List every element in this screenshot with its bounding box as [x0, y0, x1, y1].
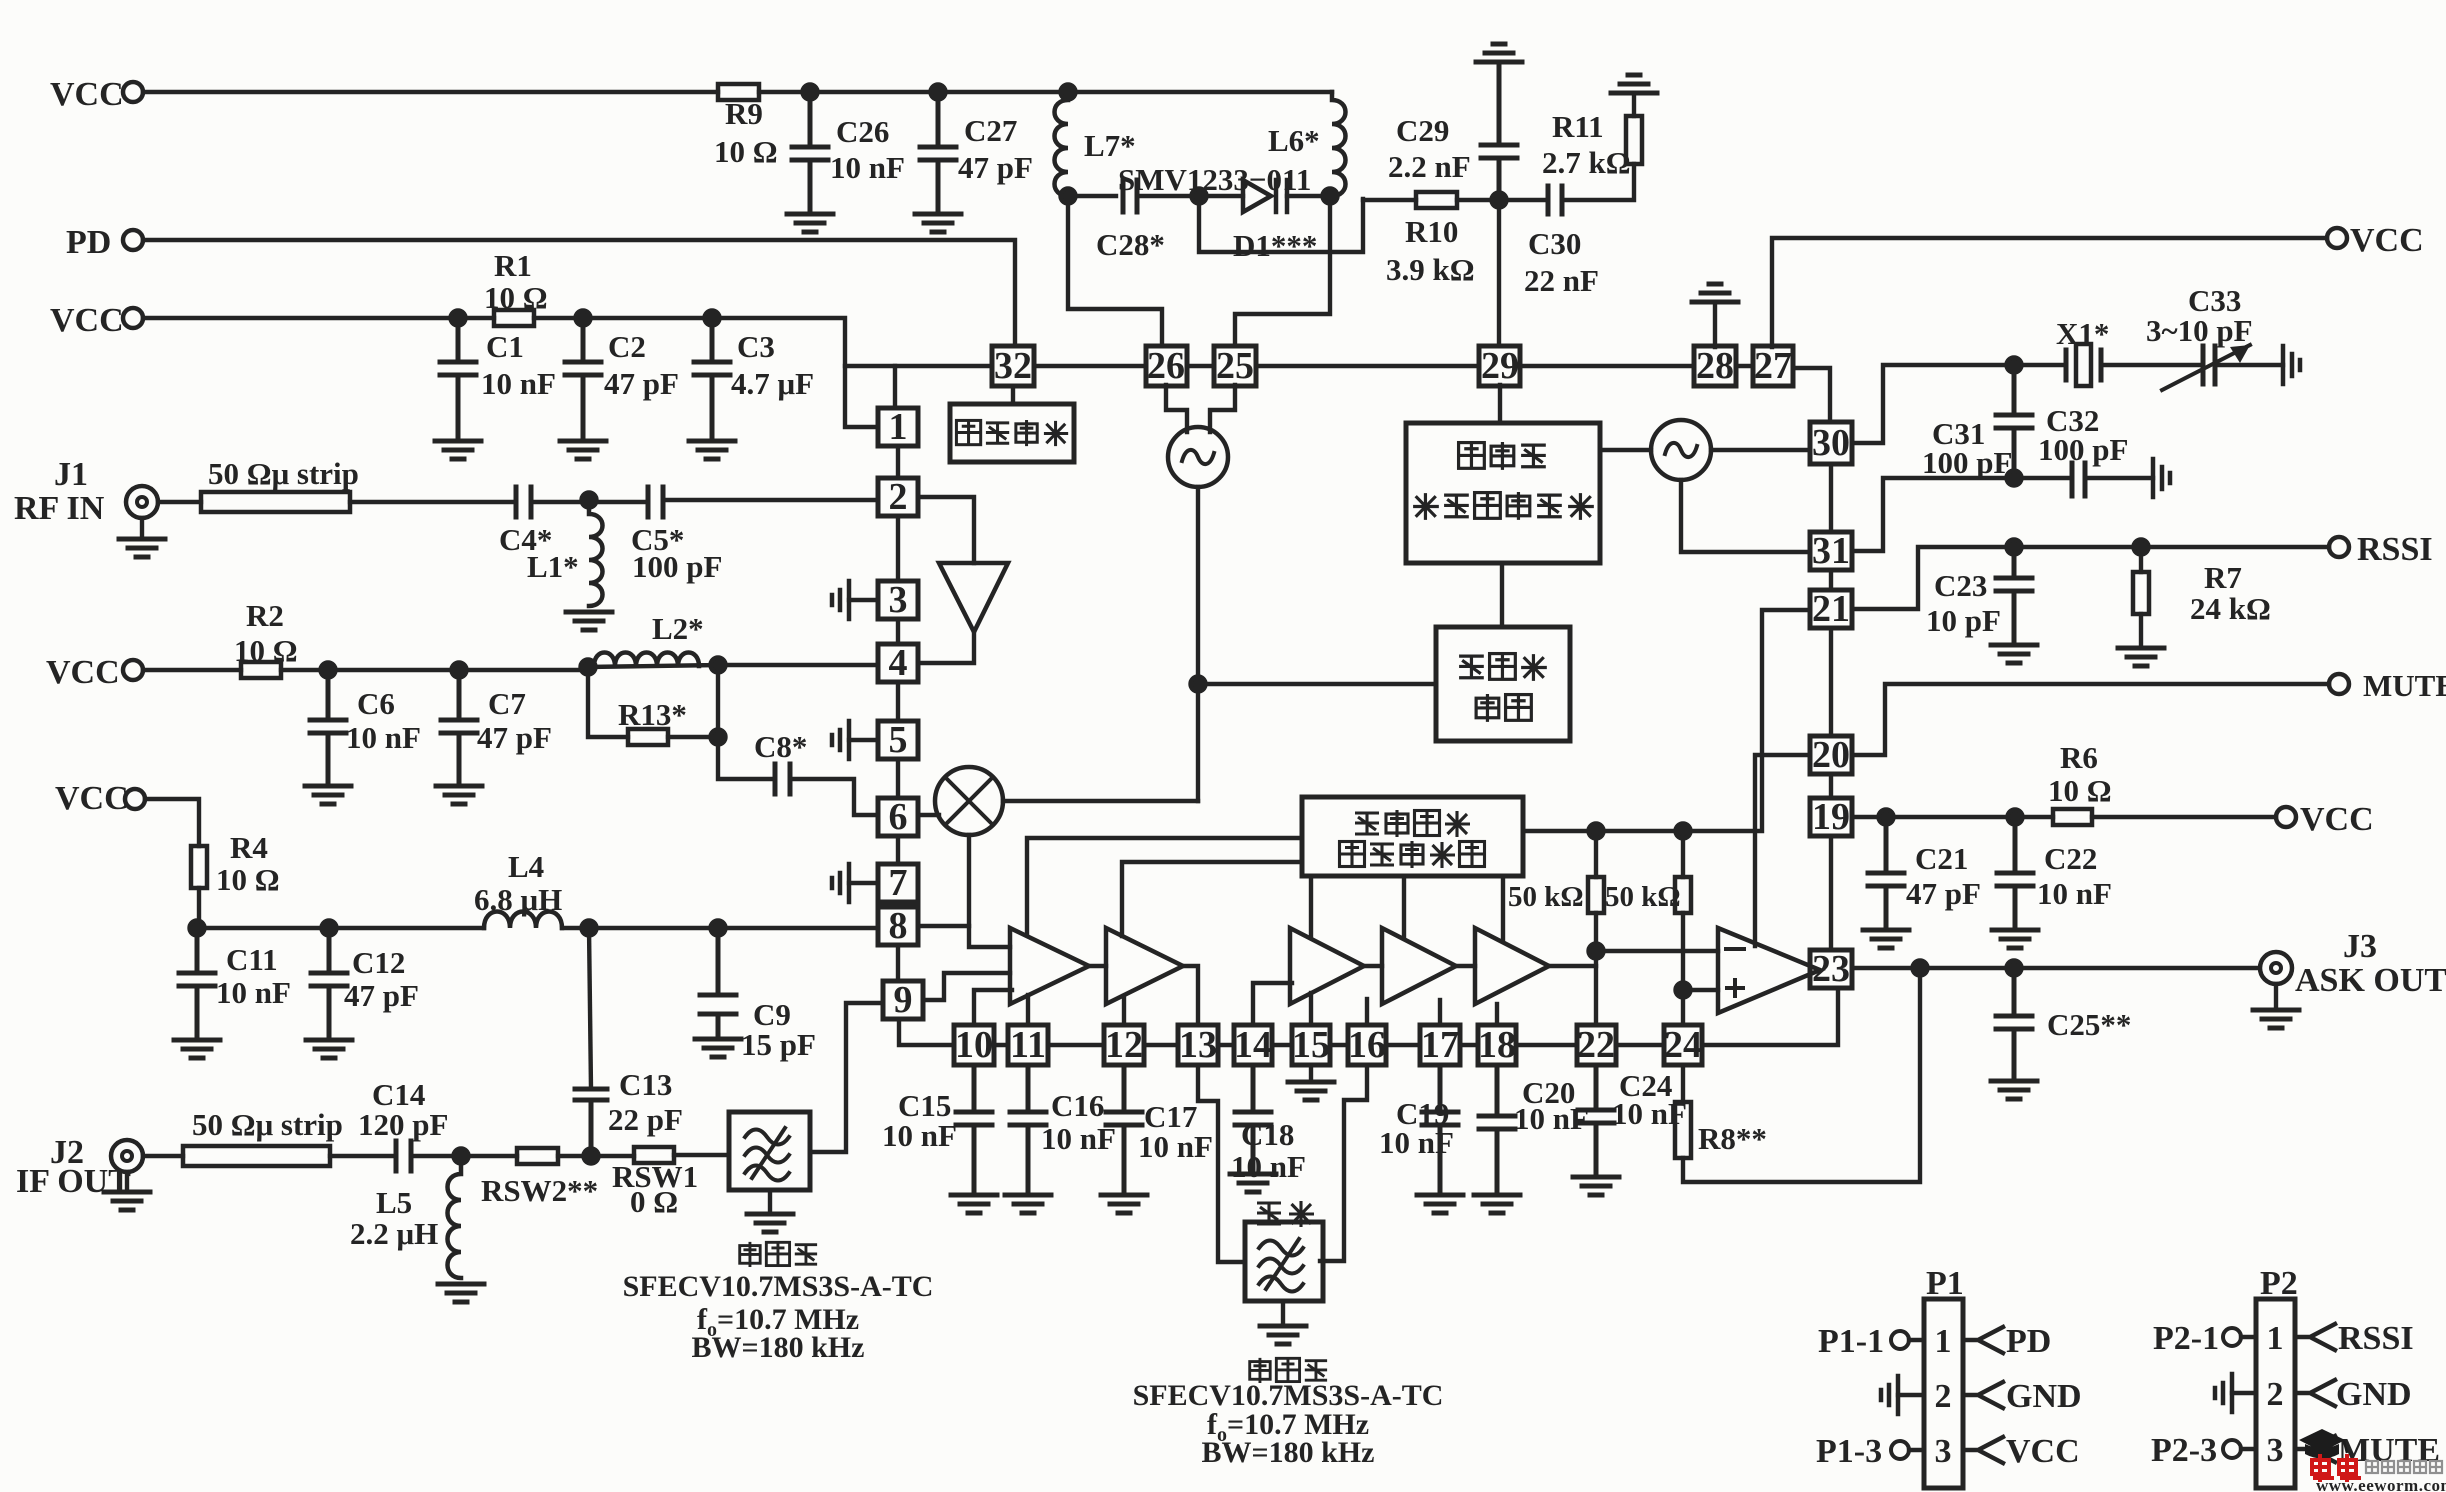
wire pin11 to A1 — [1026, 995, 1030, 1025]
terminal PD — [123, 230, 143, 250]
resistor R10 — [1416, 192, 1457, 208]
wire box stubs to amps — [1311, 876, 1503, 941]
wire filter1 to pin 9 — [810, 1003, 883, 1152]
svg-text:19: 19 — [1812, 796, 1850, 838]
terminal VCC (top right) — [2327, 228, 2347, 248]
capacitor C25 — [1996, 968, 2032, 1078]
label phase detector box text line1 — [1459, 443, 1485, 469]
box linear signal strength indicator — [1302, 797, 1523, 876]
wire RSW2 to RSW1 — [558, 1154, 634, 1158]
terminal VCC (top) — [123, 82, 143, 102]
oscillator VCO1 — [1168, 427, 1228, 487]
wire L6 bottom down to pin 25 — [1235, 196, 1330, 346]
pin 30 — [1810, 422, 1852, 464]
ground C25 — [1991, 1081, 2037, 1099]
node R13 right — [711, 730, 726, 745]
capacitor C1 — [440, 318, 476, 438]
wire RSW1 to filter1 — [674, 1153, 729, 1157]
terminal P1-3 — [1891, 1441, 1909, 1459]
svg-text:J3: J3 — [2343, 928, 2377, 965]
wire feedback A — [1027, 838, 1302, 934]
sideways ground after C33 — [2283, 346, 2300, 384]
svg-text:3: 3 — [1935, 1433, 1952, 1470]
inductor L2 — [594, 653, 699, 667]
pin 24 — [1664, 1025, 1702, 1065]
resistor R11 — [1626, 116, 1642, 164]
svg-text:8: 8 — [889, 905, 908, 947]
svg-text:P2-3: P2-3 — [2151, 1432, 2217, 1469]
node C12 — [322, 921, 337, 936]
watermark graduation cap — [2299, 1429, 2345, 1452]
capacitor C29 — [1481, 64, 1517, 200]
capacitor C24 — [1578, 1065, 1614, 1174]
svg-text:VCC: VCC — [55, 780, 129, 817]
ground C21 — [1863, 930, 1909, 948]
node L1 top — [582, 493, 597, 508]
svg-text:www.eeworm.com: www.eeworm.com — [2316, 1476, 2446, 1492]
svg-text:L6*: L6* — [1268, 123, 1320, 158]
svg-text:L5: L5 — [376, 1185, 412, 1220]
svg-text:C13: C13 — [619, 1067, 672, 1102]
svg-text:29: 29 — [1481, 345, 1519, 387]
svg-text:GND: GND — [2006, 1378, 2082, 1415]
ground C15 — [951, 1195, 997, 1213]
svg-text:100 pF: 100 pF — [632, 549, 722, 584]
wire pin26 pin25 to oscillator — [1166, 385, 1235, 432]
pin 4 — [878, 644, 918, 682]
label filter2 text — [1250, 1358, 1270, 1383]
ground above pin 28 — [1692, 284, 1738, 302]
node R7 — [2134, 540, 2149, 555]
ground C16 — [1005, 1195, 1051, 1213]
connector J2 IF OUT — [111, 1140, 143, 1172]
capacitor C27 — [920, 92, 956, 212]
wire C4 to C5 — [531, 500, 648, 504]
svg-text:L4: L4 — [508, 849, 544, 884]
node C13 bottom — [584, 1149, 599, 1164]
svg-text:10 nF: 10 nF — [1612, 1096, 1687, 1131]
svg-text:120 pF: 120 pF — [358, 1107, 448, 1142]
capacitor C18 — [1235, 1065, 1271, 1172]
ground L5 — [438, 1284, 484, 1302]
pin 3 — [878, 581, 918, 619]
wire pin30 right to X1 rail — [1852, 365, 2066, 443]
svg-text:J1: J1 — [54, 456, 88, 493]
wire L7 bottom to C28 — [1068, 194, 1116, 198]
svg-text:3.9 kΩ: 3.9 kΩ — [1386, 252, 1475, 287]
pin 10 — [954, 1025, 994, 1065]
resistor RSW2 — [517, 1148, 558, 1164]
svg-text:RSSI: RSSI — [2357, 531, 2433, 568]
svg-text:22 nF: 22 nF — [1524, 263, 1599, 298]
pin 21 — [1810, 590, 1852, 628]
wire VCO2 to pin30 — [1711, 448, 1807, 452]
box filter2 SAW — [1245, 1222, 1323, 1301]
svg-text:L2*: L2* — [652, 611, 704, 646]
svg-text:C29: C29 — [1396, 113, 1449, 148]
wire tee down to pin 1 top — [845, 366, 895, 408]
node L2 left — [581, 660, 596, 675]
ground above C29 — [1476, 44, 1522, 62]
resistor R8 — [1675, 1102, 1691, 1158]
svg-text:0 Ω: 0 Ω — [630, 1184, 678, 1219]
capacitor C21 — [1868, 817, 1904, 927]
svg-text:18: 18 — [1478, 1024, 1516, 1066]
inductor L4 — [484, 912, 562, 929]
node C9 — [711, 921, 726, 936]
crystal X1 — [2066, 350, 2101, 380]
watermark red text chongchong — [2312, 1454, 2361, 1482]
arrow P1 pin2 GND — [1963, 1382, 2003, 1408]
svg-text:P1-1: P1-1 — [1818, 1323, 1884, 1360]
svg-text:C26: C26 — [836, 114, 889, 149]
ground J1 — [140, 518, 144, 537]
wire X1 to C33 — [2101, 363, 2203, 367]
wire VCC to R4 — [145, 799, 199, 846]
wire pin27 up to VCC rail — [1772, 238, 2327, 347]
pin 8 — [878, 907, 918, 945]
svg-text:6.8 μH: 6.8 μH — [474, 882, 562, 917]
svg-text:4: 4 — [889, 642, 908, 684]
ground filter1 — [768, 1190, 772, 1212]
svg-text:C3: C3 — [737, 329, 775, 364]
wire pin8 to mixer vertical — [918, 924, 969, 928]
capacitor C28 — [1123, 180, 1137, 212]
svg-text:P2: P2 — [2260, 1265, 2298, 1302]
node L7 bottom — [1061, 189, 1076, 204]
wire pin14 to A3 — [1253, 983, 1292, 1025]
resistor R1 — [494, 310, 534, 326]
wire pin21 to RSSI rail — [1852, 547, 2329, 609]
svg-text:10 nF: 10 nF — [346, 720, 421, 755]
svg-text:5: 5 — [889, 719, 908, 761]
svg-text:10 nF: 10 nF — [1379, 1125, 1454, 1160]
wire pin24 to R8 — [1681, 1065, 1685, 1102]
svg-text:R9: R9 — [725, 96, 763, 131]
svg-text:VCC: VCC — [2006, 1433, 2080, 1470]
svg-text:32: 32 — [994, 345, 1032, 387]
wire ustrip to C4 — [350, 500, 516, 504]
pin 5 — [878, 721, 918, 759]
terminal P2-1 — [2223, 1328, 2241, 1346]
wire VCC rail to R9 — [143, 90, 718, 94]
pin 29 — [1479, 346, 1520, 386]
svg-text:L7*: L7* — [1084, 128, 1136, 163]
svg-text:L1*: L1* — [527, 549, 579, 584]
ground C24 — [1573, 1177, 1619, 1195]
svg-text:10 Ω: 10 Ω — [2048, 773, 2112, 808]
terminal P2-3 — [2223, 1440, 2241, 1458]
node L5 top — [454, 1149, 469, 1164]
label filter1 text — [740, 1242, 760, 1267]
svg-text:C1: C1 — [486, 329, 524, 364]
svg-text:10 nF: 10 nF — [1138, 1129, 1213, 1164]
ground pin 15 — [1309, 1065, 1313, 1080]
svg-text:3: 3 — [889, 579, 908, 621]
watermark gray site name — [2366, 1461, 2442, 1473]
capacitor C30 — [1548, 186, 1562, 214]
label DC bias box text — [956, 420, 980, 444]
wire D1 to L6 bottom — [1287, 194, 1332, 198]
node C27 top — [931, 85, 946, 100]
pin 16 — [1348, 1025, 1386, 1065]
capacitor C7 — [441, 670, 477, 784]
wire ustrip to C14 — [330, 1154, 396, 1158]
node C21 — [1879, 810, 1894, 825]
wire R4 to L4 rail — [197, 888, 201, 928]
svg-text:R11: R11 — [1552, 109, 1604, 144]
box DC bias — [950, 404, 1074, 462]
svg-text:28: 28 — [1696, 345, 1734, 387]
pin 14 — [1234, 1025, 1272, 1065]
wire A2 out to pin 13 — [1183, 966, 1198, 1025]
ground C26 — [787, 214, 833, 232]
svg-text:3: 3 — [2267, 1432, 2284, 1469]
pin 6 — [878, 798, 918, 836]
svg-text:4.7 μF: 4.7 μF — [731, 366, 814, 401]
svg-text:RSSI: RSSI — [2338, 1320, 2414, 1357]
svg-text:1: 1 — [2267, 1320, 2284, 1357]
svg-text:PD: PD — [2006, 1323, 2051, 1360]
svg-text:10 nF: 10 nF — [1231, 1149, 1306, 1184]
svg-text:C6: C6 — [357, 686, 395, 721]
pin 32 — [992, 346, 1034, 386]
svg-text:BW=180 kHz: BW=180 kHz — [692, 1331, 865, 1364]
wire C33 to ground — [2215, 363, 2283, 367]
capacitor C17 — [1106, 1065, 1142, 1192]
svg-text:50 Ωμ strip: 50 Ωμ strip — [208, 456, 359, 491]
ground pin 3 — [849, 598, 878, 602]
capacitor C32 — [2072, 463, 2085, 496]
ground pin 5 — [849, 738, 878, 742]
wire pin19 VCC rail — [1852, 815, 2276, 819]
connector P2 body — [2256, 1299, 2295, 1488]
resistor 50k no2 — [1681, 831, 1685, 877]
wire pin6 to mixer — [918, 813, 939, 817]
ground P2-2 — [2215, 1374, 2232, 1412]
svg-text:VCC: VCC — [50, 302, 124, 339]
svg-text:R10: R10 — [1405, 214, 1458, 249]
wire mixer to VCO1 riser — [1003, 799, 1198, 803]
svg-text:VCC: VCC — [50, 76, 124, 113]
wire VCC to R2 — [143, 668, 241, 672]
svg-text:C7: C7 — [488, 686, 526, 721]
pin 9 — [883, 981, 923, 1019]
arrow P1 pin3 VCC — [1963, 1437, 2003, 1463]
resistor R6 — [2053, 809, 2092, 825]
svg-text:12: 12 — [1105, 1024, 1143, 1066]
wire pin connectors right column — [1829, 464, 1833, 950]
svg-text:BW=180 kHz: BW=180 kHz — [1202, 1436, 1375, 1469]
amplifier A2 — [1106, 928, 1183, 1004]
svg-text:10 nF: 10 nF — [830, 150, 905, 185]
inductor L6 — [1332, 92, 1346, 196]
wire C5 to pin 2 — [663, 498, 878, 502]
wire to C8 — [718, 737, 775, 779]
svg-text:IF OUT: IF OUT — [16, 1163, 131, 1200]
pin 25 — [1214, 346, 1256, 386]
node L6 bottom — [1323, 189, 1338, 204]
svg-text:R1: R1 — [494, 248, 532, 283]
svg-text:SMV1233−011: SMV1233−011 — [1118, 162, 1311, 197]
svg-text:C30: C30 — [1528, 226, 1581, 261]
arrow P2 pin2 GND — [2295, 1380, 2335, 1406]
svg-text:50 kΩ: 50 kΩ — [1508, 881, 1584, 913]
svg-text:2: 2 — [1935, 1378, 1952, 1415]
wire R8 loop to ASK node — [1683, 968, 1920, 1182]
wire VCC rail to R1 — [143, 316, 494, 320]
node C25 — [2007, 961, 2022, 976]
svg-text:VCC: VCC — [2300, 801, 2374, 838]
svg-text:20: 20 — [1812, 734, 1850, 776]
arrow P1 pin1 PD — [1963, 1327, 2003, 1353]
svg-text:GND: GND — [2336, 1376, 2412, 1413]
svg-text:R8**: R8** — [1698, 1121, 1767, 1156]
svg-text:7: 7 — [889, 862, 908, 904]
oscillator VCO2 — [1651, 420, 1711, 480]
pin 7 — [878, 864, 918, 902]
svg-text:23: 23 — [1812, 948, 1850, 990]
node L7 top — [1061, 85, 1076, 100]
ground C17 — [1101, 1195, 1147, 1213]
capacitor C2 — [565, 318, 601, 438]
svg-text:1: 1 — [1935, 1323, 1952, 1360]
svg-text:R7: R7 — [2204, 560, 2242, 595]
wire R1 to corner, down to pin1 level — [534, 318, 878, 427]
node C13 riser top — [582, 921, 597, 936]
node prescaler tap — [1191, 677, 1206, 692]
amplifier A5 — [1475, 928, 1549, 1004]
svg-text:50 kΩ: 50 kΩ — [1605, 881, 1681, 913]
wire VCO1 tap to prescaler — [1198, 682, 1436, 686]
capacitor C9 — [700, 928, 736, 1036]
wire mixer bottom to amp1 input — [969, 835, 1010, 947]
svg-text:100 pF: 100 pF — [1922, 445, 2012, 480]
node X1/C31 — [2007, 358, 2022, 373]
ground above R11 — [1611, 75, 1657, 93]
capacitor C14 — [396, 1141, 411, 1171]
RF amp triangle — [939, 563, 1008, 632]
ground C2 — [560, 441, 606, 459]
wire pin2 to RF amp — [918, 497, 974, 563]
wire pin10 to amp1 — [974, 990, 1012, 1025]
arrow P2 pin3 MUTE — [2295, 1436, 2335, 1462]
resistor R13 — [628, 729, 668, 745]
wire C29 riser to pin 29 — [1497, 200, 1501, 345]
svg-text:15: 15 — [1292, 1024, 1330, 1066]
svg-text:10 nF: 10 nF — [481, 366, 556, 401]
pin 20 — [1810, 736, 1852, 774]
pin 26 — [1146, 346, 1187, 386]
label prescaler box text line1 — [1459, 656, 1484, 678]
wire pin9 to amp1 — [923, 973, 1010, 1000]
svg-text:30: 30 — [1812, 422, 1850, 464]
svg-text:21: 21 — [1812, 588, 1850, 630]
wire plus input — [1683, 988, 1718, 992]
ground C12 — [306, 1040, 352, 1058]
terminal P1-1 — [1891, 1331, 1909, 1349]
ground R7 — [2118, 648, 2164, 666]
ground P1-2 — [1881, 1376, 1898, 1414]
capacitor C6 — [310, 670, 346, 784]
wire pin23 bottom to pin24 — [1702, 988, 1838, 1045]
capacitor C4 — [516, 487, 531, 517]
capacitor C5 — [648, 487, 663, 517]
svg-text:22 pF: 22 pF — [608, 1102, 683, 1137]
pin 1 — [878, 408, 918, 446]
wire pin17 to A5 — [1438, 1000, 1442, 1025]
ground C1 — [435, 441, 481, 459]
wire R10 to C29 node — [1457, 198, 1548, 202]
capacitor C26 — [792, 92, 828, 212]
svg-text:11: 11 — [1010, 1024, 1046, 1066]
node C7 — [452, 663, 467, 678]
svg-text:47 pF: 47 pF — [477, 720, 552, 755]
wire R9 to L6 top — [759, 90, 1332, 94]
svg-text:C25**: C25** — [2047, 1007, 2131, 1042]
svg-text:27: 27 — [1754, 345, 1792, 387]
ground J3 — [2274, 984, 2278, 1008]
svg-text:SFECV10.7MS3S-A-TC: SFECV10.7MS3S-A-TC — [623, 1270, 934, 1303]
svg-text:C18: C18 — [1241, 1117, 1294, 1152]
inductor L7 — [1055, 92, 1069, 196]
svg-text:P1-3: P1-3 — [1816, 1433, 1882, 1470]
node C26 top — [803, 85, 818, 100]
ground C6 — [305, 786, 351, 804]
wire VCO1 riser down — [1196, 487, 1200, 801]
ground C9 — [695, 1039, 741, 1057]
svg-text:2.2 nF: 2.2 nF — [1388, 149, 1471, 184]
mixer — [935, 767, 1003, 835]
svg-text:24: 24 — [1664, 1024, 1702, 1066]
wire R2 to pin 4 rail — [281, 665, 878, 670]
amplifier A4 — [1382, 928, 1456, 1004]
terminal VCC (R1 rail) — [123, 308, 143, 328]
wire C32 row from pin31 — [1852, 478, 2068, 551]
node 50k no2 top — [1676, 824, 1691, 839]
ground C19 — [1417, 1195, 1463, 1213]
wire pin 9 to bottom rail — [899, 1019, 954, 1045]
svg-text:17: 17 — [1421, 1024, 1459, 1066]
pin 27 — [1753, 346, 1793, 386]
svg-text:47 pF: 47 pF — [1906, 876, 1981, 911]
svg-text:C21: C21 — [1915, 841, 1968, 876]
pin 19 — [1810, 798, 1852, 836]
resistor R2 — [241, 662, 281, 678]
svg-text:D1***: D1*** — [1233, 228, 1317, 263]
ground C3 — [689, 441, 735, 459]
svg-text:47 pF: 47 pF — [958, 150, 1033, 185]
node minus input — [1589, 944, 1604, 959]
capacitor C8 — [775, 764, 790, 794]
svg-text:X1*: X1* — [2056, 316, 2109, 351]
wire bottom pin rail — [994, 1043, 1664, 1047]
wire pin15 to A3 — [1309, 993, 1313, 1025]
svg-text:47 pF: 47 pF — [344, 978, 419, 1013]
svg-text:RF IN: RF IN — [14, 490, 105, 527]
node R8 riser — [1913, 961, 1928, 976]
svg-text:10 nF: 10 nF — [216, 975, 291, 1010]
svg-text:C8*: C8* — [754, 729, 807, 764]
svg-text:10 nF: 10 nF — [882, 1118, 957, 1153]
node C6 — [321, 663, 336, 678]
capacitor C20 — [1479, 1065, 1515, 1192]
amplifier A1 — [1010, 928, 1089, 1004]
wire C32 to ground — [2085, 476, 2153, 480]
wire J2 to ustrip — [143, 1154, 183, 1158]
svg-text:R4: R4 — [230, 830, 268, 865]
label prescaler box text line2 — [1476, 694, 1499, 722]
